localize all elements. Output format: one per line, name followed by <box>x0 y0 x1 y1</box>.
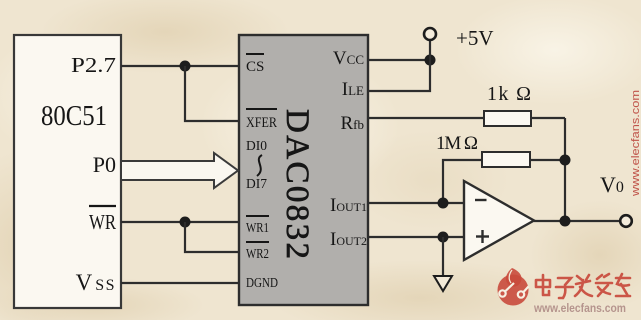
svg-text:WR2: WR2 <box>246 246 269 261</box>
op-amp U3 <box>464 181 534 260</box>
op-amp plus sign <box>476 235 489 237</box>
wire Vss to DGND <box>121 282 239 284</box>
wire IOUT2 to op-amp plus <box>368 236 464 238</box>
wire WR to WR1 <box>121 221 239 223</box>
resistor R1 1k <box>484 111 531 126</box>
svg-text:Rfb: Rfb <box>340 113 364 134</box>
svg-text:WR: WR <box>89 210 116 234</box>
wire R1 to rail <box>531 117 565 119</box>
svg-text:P0: P0 <box>93 152 116 177</box>
microcontroller U1 80C51 box <box>14 35 121 308</box>
svg-text:P2.7: P2.7 <box>71 53 116 77</box>
wire 1M branch from minus node <box>443 160 482 203</box>
watermark logo disc <box>498 268 529 306</box>
node junction dot output-rail <box>560 216 571 227</box>
wire dot to XFER <box>185 66 239 121</box>
wire P2.7 to CS <box>121 65 239 67</box>
svg-text:WR1: WR1 <box>246 220 269 235</box>
node junction dot on IOUT1 <box>438 198 449 209</box>
ground symbol <box>434 276 452 291</box>
wire dot to WR2 <box>185 222 239 252</box>
wire Vcc to +5V node <box>368 59 430 61</box>
svg-text:DI0: DI0 <box>246 138 267 153</box>
svg-text:+5V: +5V <box>456 26 494 50</box>
terminal +5V open circle <box>424 28 436 40</box>
node junction dot at +5V <box>425 55 436 66</box>
resistor R2 1M <box>482 152 530 167</box>
node junction dot on IOUT2 <box>438 232 449 243</box>
wire Rfb to R1 <box>368 117 484 119</box>
squiggle between DI0 and DI7 <box>257 155 262 176</box>
svg-text:CS: CS <box>246 59 264 75</box>
wire IOUT1 to op-amp minus <box>368 202 464 204</box>
svg-text:VCC: VCC <box>333 48 364 69</box>
svg-text:ILE: ILE <box>342 79 364 100</box>
wire ILE to +5V node <box>368 60 430 91</box>
node junction dot on P2.7 wire <box>180 61 191 72</box>
svg-text:www.elecfans.com: www.elecfans.com <box>630 90 641 197</box>
wire feedback rail <box>564 118 566 221</box>
wire R2 to rail <box>530 159 565 161</box>
node junction dot on WR wire <box>180 217 191 228</box>
svg-text:1k Ω: 1k Ω <box>487 83 531 105</box>
svg-text:DI7: DI7 <box>246 176 267 191</box>
op-amp minus sign <box>475 199 487 201</box>
svg-text:XFER: XFER <box>246 115 277 131</box>
wire IOUT2 node to ground <box>442 237 444 275</box>
wire op-amp output to Vo <box>534 220 620 222</box>
watermark text dianzifashaoyou <box>536 274 630 298</box>
svg-text:80C51: 80C51 <box>41 100 107 132</box>
node junction dot rail-R2 <box>560 155 571 166</box>
svg-text:www.elecfans.com: www.elecfans.com <box>533 303 626 315</box>
terminal Vo open circle <box>620 215 632 227</box>
DAC U2 DAC0832 box <box>239 35 368 305</box>
svg-text:1M Ω: 1M Ω <box>436 133 478 154</box>
svg-text:DGND: DGND <box>246 275 278 290</box>
bus arrow P0 to DI0-DI7 <box>121 153 238 188</box>
wire node to terminal <box>429 41 431 60</box>
